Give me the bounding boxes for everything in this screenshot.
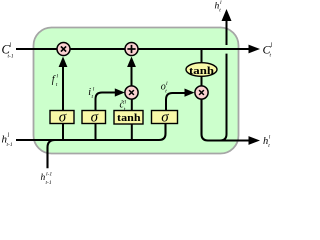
arrowhead C_t output [249,45,261,54]
wire: candidate from tanh box up to multiply [131,99,133,111]
wire: C branch down to tanh ellipse [201,49,203,63]
svg-text:t-1: t-1 [8,54,14,60]
gate box sigma2 [82,111,106,124]
svg-text:tanh: tanh [117,112,141,124]
gate box sigma1 [50,111,74,124]
arrowhead h_t right output [249,136,261,145]
svg-text:tanh: tanh [189,65,214,77]
svg-text:t-1: t-1 [46,180,52,185]
wire: cell state C line [16,48,249,50]
wire: tanh-box below box [131,124,133,140]
wire: forget gate arrow up to multiply [62,62,64,111]
wire: output gate curve to multiply [166,93,187,111]
svg-text:l-1: l-1 [46,172,52,178]
svg-text:σ: σ [161,110,169,126]
LSTM cell body [34,28,239,154]
wire: h branch up (below C line) [220,54,227,141]
gate box tanh [114,111,143,125]
wire: h branch up (above C line) [226,20,228,45]
wire: sigma2 below box [95,124,97,140]
wire: h_t^{l-1} input from bottom [48,140,56,168]
wire: input gate curve to multiply [96,93,117,111]
svg-text:t-1: t-1 [7,142,13,148]
wire: h output down and right [202,99,250,140]
svg-text:σ: σ [91,110,99,126]
arrowhead h_t top output [222,9,232,21]
svg-text:σ: σ [59,110,67,126]
multiply node forget (x) [57,43,70,56]
tanh ellipse [186,63,217,77]
wire: product up to plus [131,62,133,86]
wire: tanh ellipse down to multiply [201,76,203,86]
wire: sigma1 below box [62,124,64,140]
gate box sigma3 [152,111,178,124]
wire: h bus input (h_{t-1} entering left) [16,124,166,141]
multiply node input (x) [125,86,138,99]
multiply node output (x) [195,86,208,99]
add node (+) [125,43,138,56]
